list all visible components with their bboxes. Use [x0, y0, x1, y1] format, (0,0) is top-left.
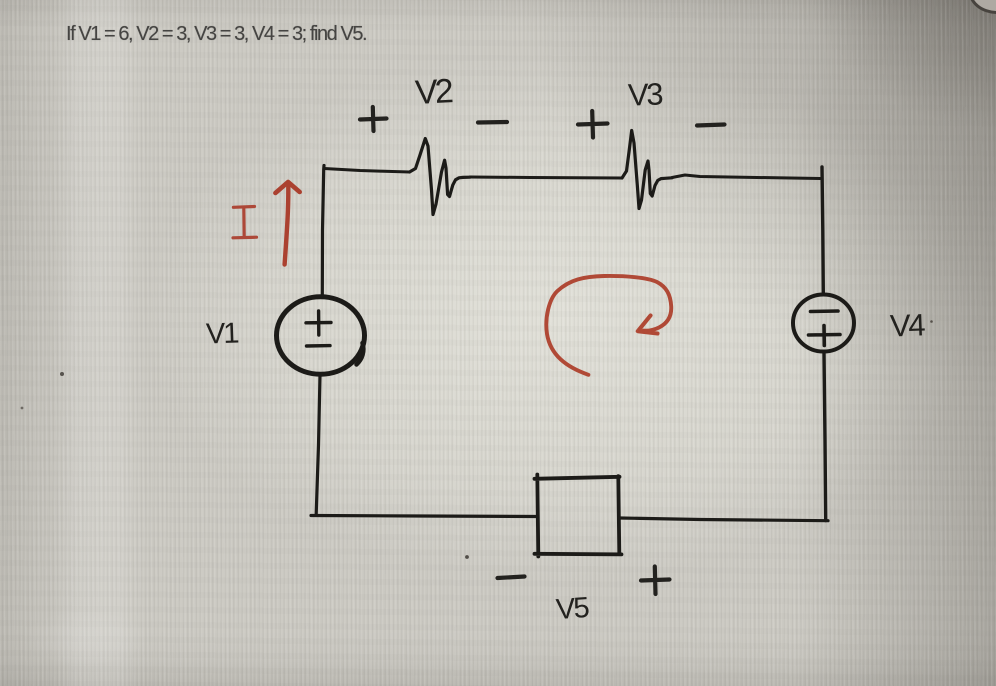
svg-text:V4: V4	[889, 307, 925, 343]
loop direction arrow (red, clockwise)	[546, 276, 671, 375]
svg-text:V1: V1	[205, 317, 238, 350]
plus sign of V3	[578, 111, 608, 138]
wire: bottom-right segment	[620, 518, 828, 521]
svg-text:V3: V3	[627, 76, 662, 112]
wire: left side lower	[316, 375, 320, 514]
wire: left side upper	[322, 166, 324, 297]
plus sign of V2	[360, 107, 387, 131]
element V5 (box)	[535, 475, 622, 557]
problem statement text	[66, 23, 366, 46]
plus sign of V5	[641, 567, 670, 595]
wire: top-left segment	[324, 169, 409, 173]
wire: bottom-left segment	[311, 516, 537, 517]
voltage source V1	[277, 297, 365, 375]
wire: top-right segment	[672, 175, 820, 179]
resistor V3	[622, 131, 672, 209]
ink dot after V4	[930, 320, 933, 323]
dust speck	[21, 407, 24, 410]
voltage source V4	[793, 295, 854, 352]
corner UI circle (partial, top-right)	[968, 0, 996, 14]
minus sign of V5	[498, 577, 525, 579]
svg-text:V2: V2	[414, 72, 454, 112]
wire: right side upper	[822, 167, 823, 294]
minus sign of V3	[697, 125, 725, 126]
wire: top-middle segment	[470, 177, 622, 178]
current label I (red)	[233, 207, 257, 238]
resistor V2	[410, 139, 471, 215]
wire: right side lower	[824, 353, 826, 521]
current arrow (red, pointing up)	[275, 182, 299, 265]
dust speck	[60, 372, 64, 376]
svg-text:V5: V5	[555, 592, 589, 626]
minus sign of V2	[478, 120, 507, 125]
dust speck	[465, 555, 469, 559]
